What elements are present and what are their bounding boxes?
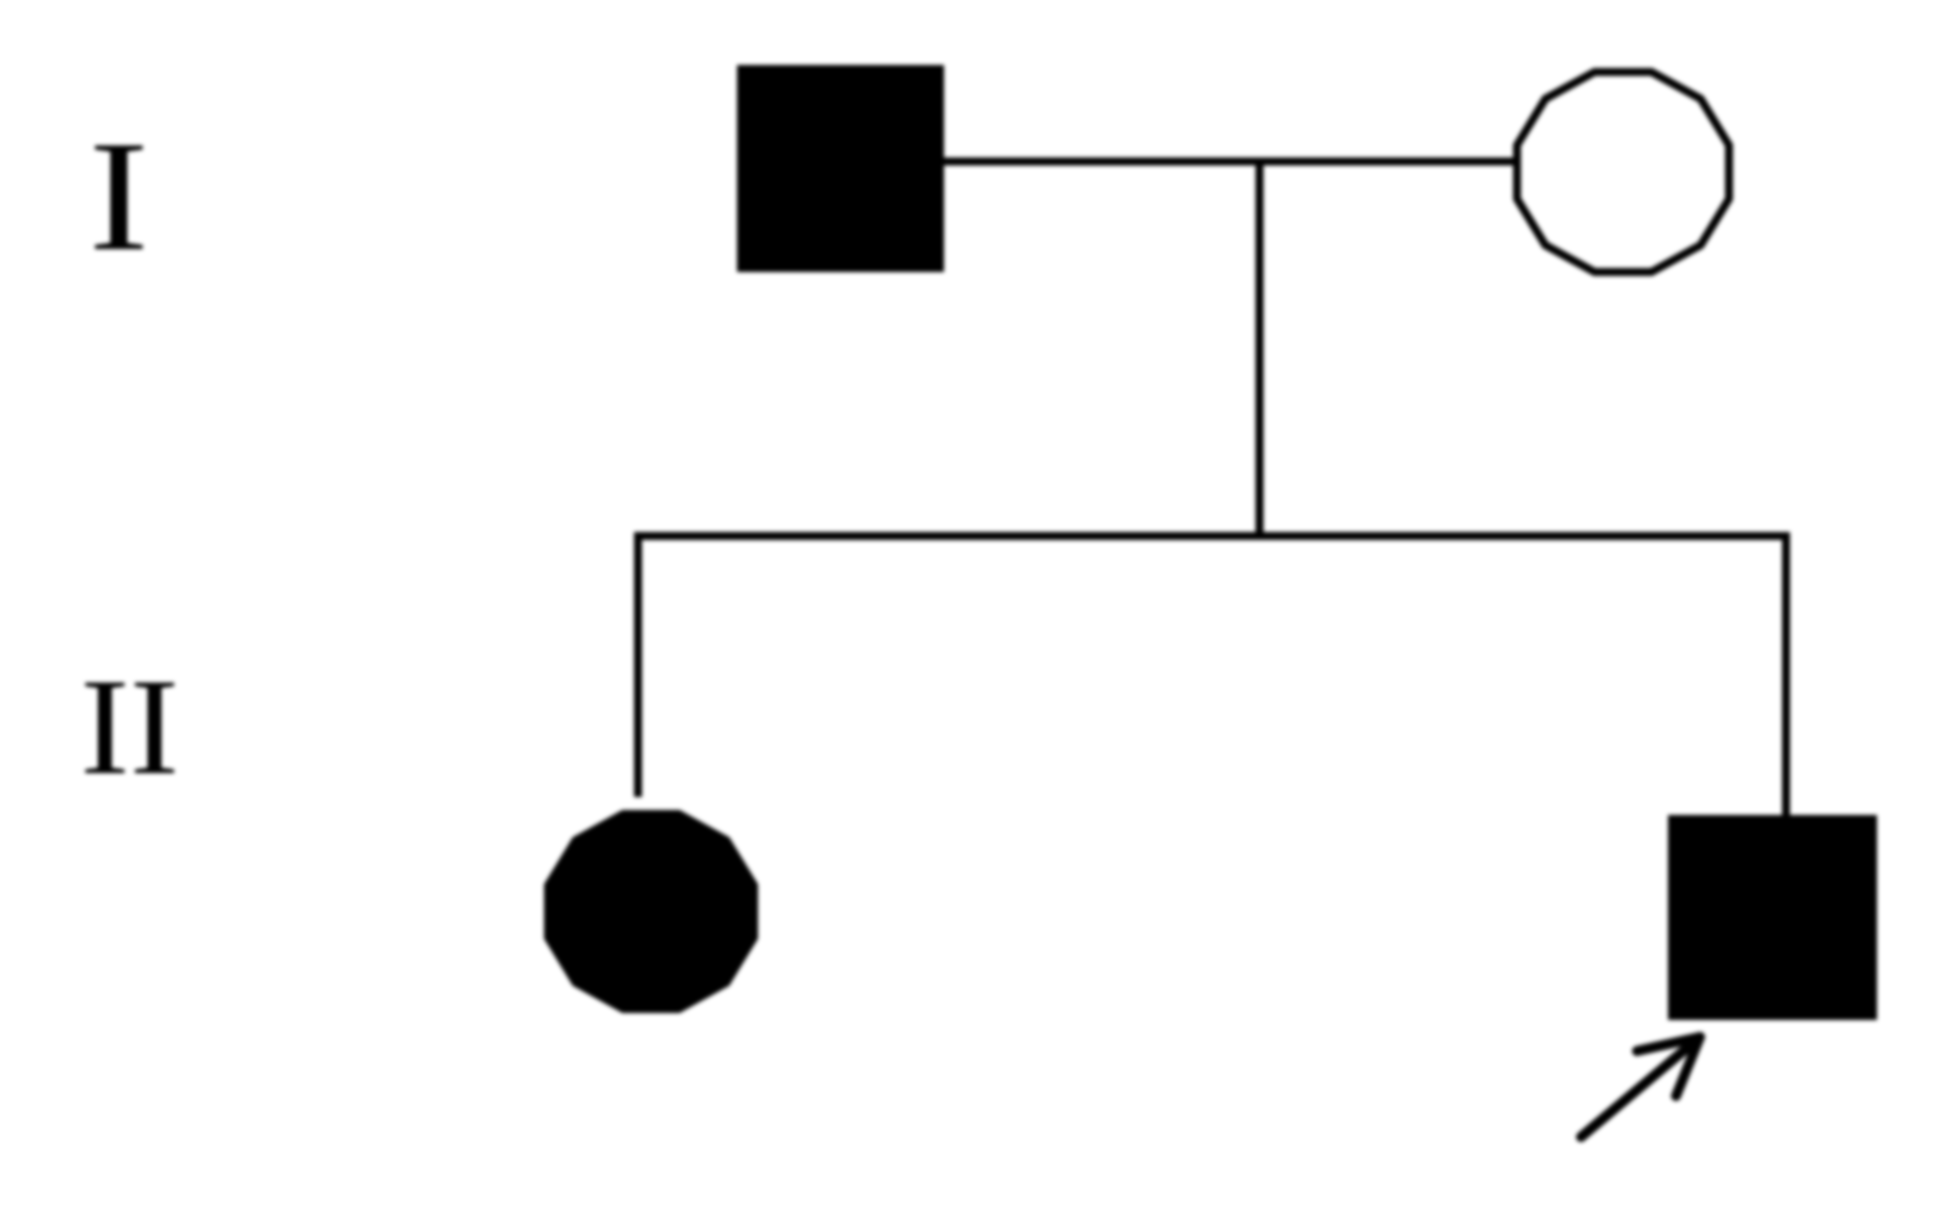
individual I-1 affected male (filled square) <box>737 65 944 272</box>
descent line from marriage to sibship <box>1256 162 1264 537</box>
svg-text:II: II <box>80 651 179 804</box>
individual I-2 unaffected female (open circle) <box>1517 72 1729 272</box>
individual II-2 affected male proband (filled square) <box>1668 815 1877 1020</box>
proband arrow barb lower-right <box>1676 1037 1700 1096</box>
marriage line I-1 to I-2 <box>944 158 1517 166</box>
proband arrow shaft <box>1581 1037 1700 1137</box>
sibship line with drops to II-1 and II-2 <box>638 536 1786 815</box>
svg-text:I: I <box>89 108 150 283</box>
individual II-1 affected female (filled circle) <box>544 810 758 1013</box>
proband arrow barb upper-left <box>1637 1037 1700 1051</box>
